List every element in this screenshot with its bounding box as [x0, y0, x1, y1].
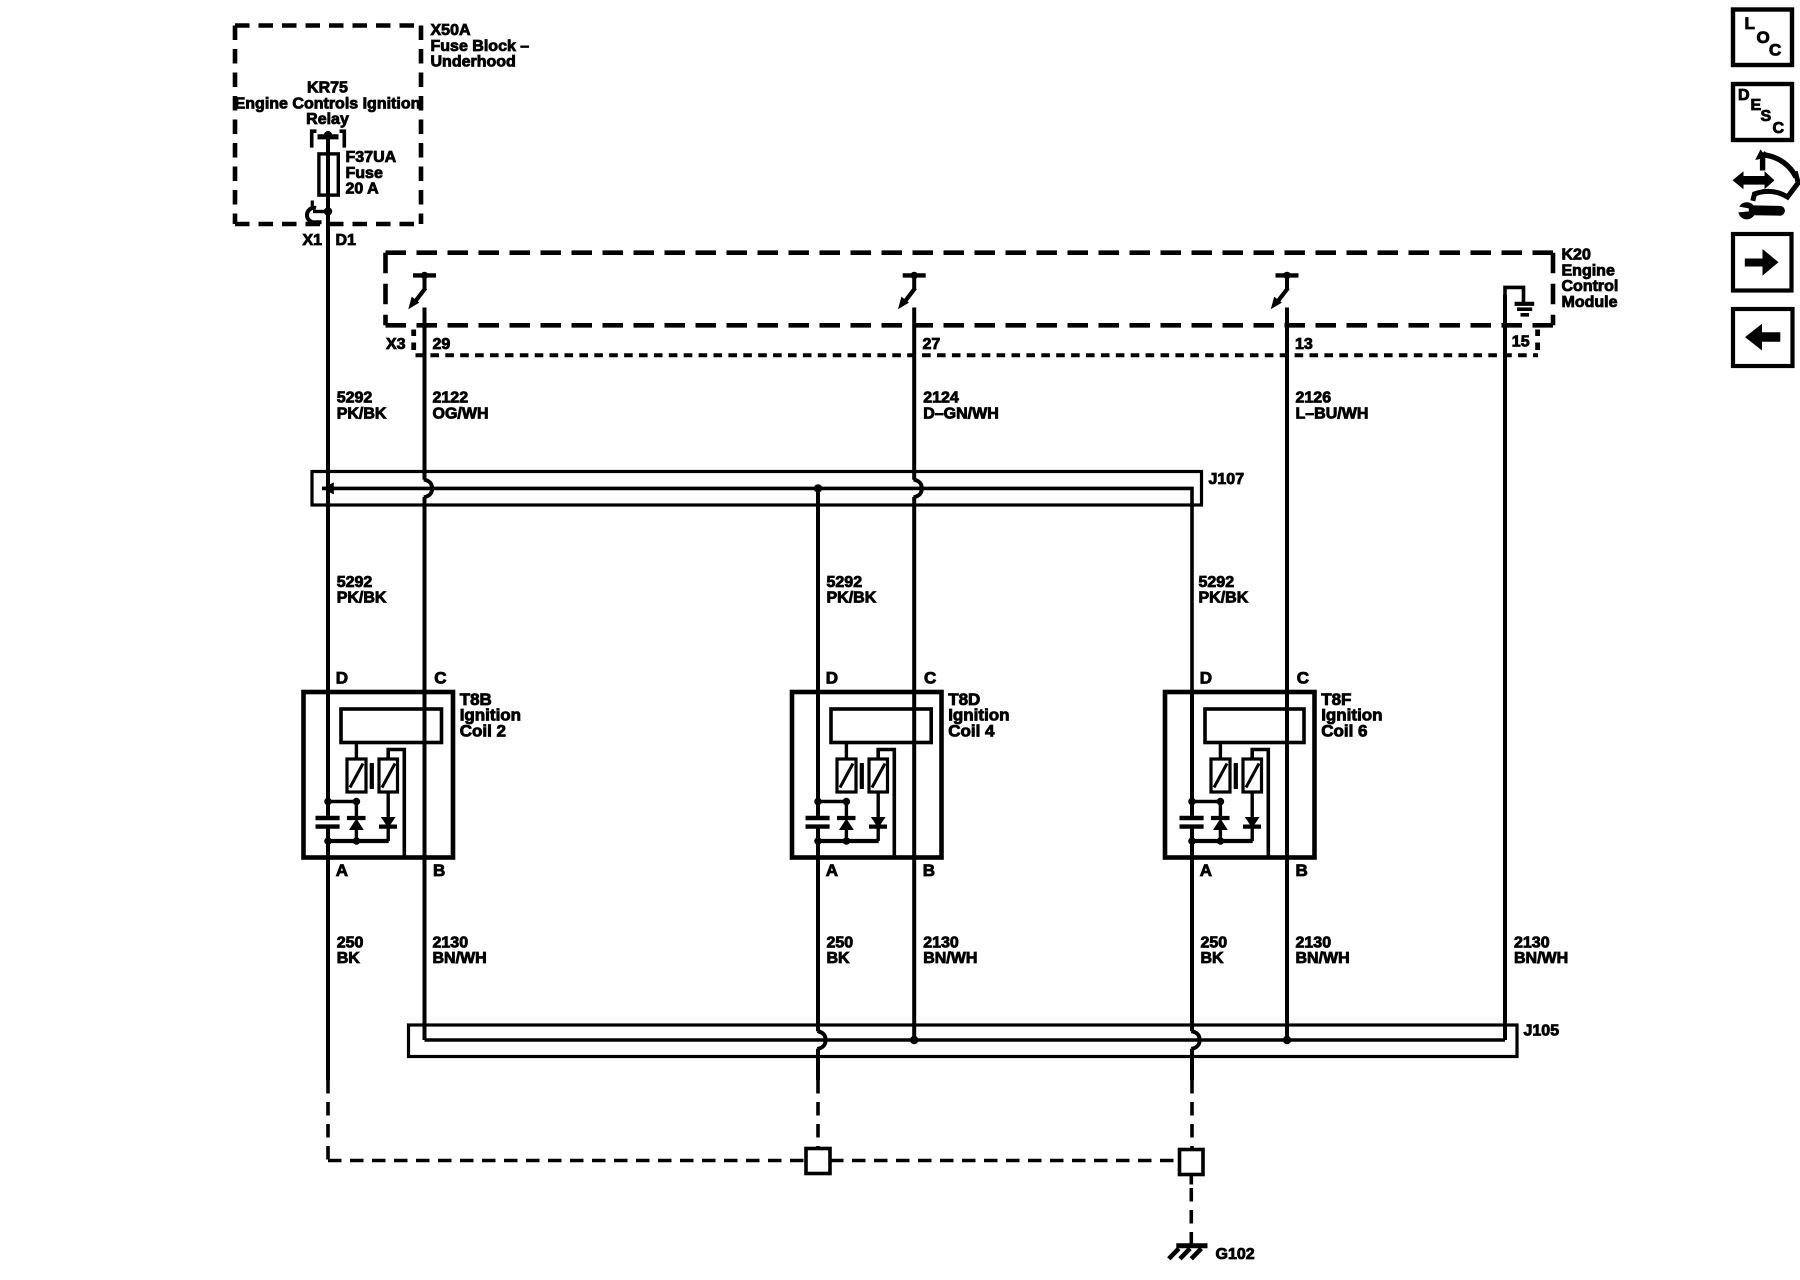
svg-text:D–GN/WH: D–GN/WH: [923, 405, 999, 422]
wire 250 BK from coil 6 pin A: [1190, 858, 1194, 1032]
connector X3 left tick: [411, 330, 416, 337]
wire 5292 PK/BK from J107 to coil 4 pin D: [816, 488, 820, 692]
zener diode (T8D): [877, 792, 880, 817]
svg-text:Engine Controls Ignition: Engine Controls Ignition: [235, 95, 421, 112]
internal wire to winding (T8B): [328, 800, 356, 803]
terminal hook at fuse block exit: [313, 210, 328, 213]
core (T8B): [370, 763, 374, 789]
svg-text:B: B: [1296, 861, 1308, 880]
svg-text:2130: 2130: [923, 934, 959, 951]
svg-text:F37UA: F37UA: [346, 149, 397, 166]
icon box forward arrow: [1733, 234, 1792, 291]
wire 2130 BN/WH from ECM pin 15 to splice J105: [1503, 295, 1507, 1040]
svg-text:X1: X1: [303, 232, 323, 249]
svg-text:Coil 2: Coil 2: [460, 721, 506, 740]
svg-text:B: B: [433, 861, 445, 880]
J107 branch junction to coil 4 pin D: [814, 484, 822, 492]
icon box LOC: [1733, 10, 1792, 66]
svg-text:Coil 4: Coil 4: [948, 721, 995, 740]
svg-text:20 A: 20 A: [346, 181, 380, 198]
svg-text:Relay: Relay: [306, 111, 349, 128]
wire pin B from primary block (T8D): [912, 709, 916, 743]
junction dot D branch (T8B): [324, 798, 332, 806]
wire 2130 BN/WH from coil 2 pin B to splice J105: [423, 743, 427, 1041]
svg-text:BK: BK: [1201, 950, 1225, 967]
relay KR75 contact terminals: [312, 131, 317, 147]
junction dot D branch (T8F): [1188, 798, 1196, 806]
internal ground bus (T8D): [818, 839, 879, 843]
diode (T8D): [845, 802, 848, 819]
svg-text:D: D: [1738, 87, 1750, 104]
junction dot below fuse: [324, 207, 332, 215]
ground dashed link to splice S1: [328, 1159, 806, 1163]
ground G102 symbol: [1176, 1243, 1207, 1248]
J107 pass-through chevron at wire 2124: [914, 479, 922, 497]
svg-text:2122: 2122: [433, 390, 469, 407]
svg-text:G102: G102: [1216, 1246, 1255, 1263]
primary winding (T8B): [355, 743, 358, 760]
secondary output wire (T8F): [1252, 750, 1268, 856]
svg-text:B: B: [923, 861, 935, 880]
wire 2130 BN/WH from coil 4 pin B to splice J105: [912, 743, 916, 1041]
svg-text:Engine: Engine: [1562, 262, 1615, 279]
svg-text:BK: BK: [337, 950, 361, 967]
wire 2130 BN/WH from coil 6 pin B to splice J105: [1285, 743, 1289, 1041]
fuse F37UA 20 A: [319, 154, 338, 195]
svg-text:D: D: [826, 668, 838, 687]
svg-text:PK/BK: PK/BK: [337, 405, 387, 422]
svg-text:BN/WH: BN/WH: [1514, 950, 1568, 967]
svg-text:5292: 5292: [827, 574, 863, 591]
ground wire (dashed) from coil 2 pin A: [326, 1080, 330, 1161]
secondary output wire (T8B): [388, 750, 404, 856]
internal wire to winding (T8F): [1192, 800, 1220, 803]
svg-text:27: 27: [923, 336, 941, 353]
svg-text:KR75: KR75: [307, 80, 348, 97]
svg-text:A: A: [336, 861, 348, 880]
svg-text:L: L: [1745, 14, 1755, 33]
svg-text:S: S: [1761, 108, 1772, 125]
svg-text:C: C: [434, 668, 446, 687]
capacitor (T8D): [806, 816, 830, 820]
svg-text:5292: 5292: [337, 574, 373, 591]
svg-text:C: C: [1769, 41, 1781, 60]
svg-text:2124: 2124: [923, 390, 959, 407]
svg-text:PK/BK: PK/BK: [1199, 590, 1249, 607]
wire pin A inside T8D: [816, 841, 820, 858]
ECM low-side driver, pin 27: [903, 273, 926, 277]
svg-text:C: C: [924, 668, 936, 687]
J105 pass-through chevron at coil 6 ground wire: [1191, 1031, 1199, 1049]
svg-text:13: 13: [1295, 336, 1313, 353]
svg-text:BN/WH: BN/WH: [923, 950, 977, 967]
svg-text:PK/BK: PK/BK: [337, 590, 387, 607]
svg-text:Fuse: Fuse: [346, 165, 383, 182]
J105 junction with coil 4 pin B wire: [910, 1036, 918, 1044]
svg-text:J105: J105: [1524, 1023, 1560, 1040]
capacitor (T8F): [1180, 816, 1204, 820]
wire 2124 D-GN/WH from ECM pin 27 to coil 4 pin C: [912, 308, 916, 480]
secondary winding (T8F): [1243, 759, 1262, 792]
wire pin D inside T8D: [816, 692, 820, 818]
svg-text:Module: Module: [1562, 294, 1618, 311]
J105 internal bus wire: [425, 1038, 1506, 1042]
svg-text:BN/WH: BN/WH: [1296, 950, 1350, 967]
ground dashed wire from S2 to G102: [1190, 1175, 1194, 1185]
svg-text:D: D: [1200, 668, 1212, 687]
icon swap/repair: double arrow: [1733, 171, 1775, 189]
svg-text:L–BU/WH: L–BU/WH: [1296, 405, 1369, 422]
ECM low-side driver, pin 13: [1276, 273, 1299, 277]
diode (T8B): [355, 802, 358, 819]
svg-text:250: 250: [1201, 934, 1228, 951]
internal ground bus (T8F): [1192, 839, 1253, 843]
svg-text:PK/BK: PK/BK: [827, 590, 877, 607]
svg-text:BK: BK: [827, 950, 851, 967]
secondary winding (T8B): [379, 759, 398, 792]
wire pin B from primary block (T8B): [423, 709, 427, 743]
svg-text:D1: D1: [336, 232, 357, 249]
wire 250 BK from coil 4 pin A: [816, 858, 820, 1032]
svg-text:Underhood: Underhood: [431, 54, 516, 71]
svg-text:J107: J107: [1209, 471, 1245, 488]
svg-text:BN/WH: BN/WH: [433, 950, 487, 967]
core (T8D): [860, 763, 864, 789]
primary winding (T8F): [1219, 743, 1222, 760]
svg-text:D: D: [336, 668, 348, 687]
ignition coil T8B box: [304, 692, 454, 858]
svg-text:15: 15: [1512, 334, 1530, 351]
ignition coil T8F box: [1165, 692, 1315, 858]
J105 junction with coil 6 pin B wire: [1283, 1036, 1291, 1044]
wire pin B from primary block (T8F): [1285, 709, 1289, 743]
J107 arrow toward fuse feed: [322, 482, 334, 494]
wire pin D inside T8B: [326, 692, 330, 818]
internal wire to winding (T8D): [818, 800, 846, 803]
svg-text:K20: K20: [1562, 247, 1591, 264]
svg-text:A: A: [826, 861, 838, 880]
ECM low-side driver, pin 29: [413, 273, 436, 277]
engine control module K20 dashed box: [386, 250, 1554, 255]
zener diode (T8F): [1250, 792, 1253, 817]
svg-text:X50A: X50A: [431, 22, 471, 39]
ground dashed link from S1 to S2: [830, 1159, 1180, 1163]
ECM internal ground at pin 15: [1505, 287, 1524, 302]
junction dot D branch (T8D): [814, 798, 822, 806]
wire 2122 OG/WH from ECM pin 29 to coil 2 pin C: [423, 308, 427, 480]
svg-text:A: A: [1200, 861, 1212, 880]
fuse block X50A dashed box: [235, 23, 421, 28]
icon box DESC: [1733, 84, 1792, 140]
zener diode (T8B): [387, 792, 390, 817]
svg-text:2126: 2126: [1296, 390, 1332, 407]
svg-text:C: C: [1297, 668, 1309, 687]
J107 pass-through chevron at wire 2122: [424, 479, 432, 497]
ground splice square S2: [1180, 1150, 1204, 1175]
svg-text:250: 250: [337, 934, 364, 951]
svg-text:Coil 6: Coil 6: [1321, 721, 1367, 740]
icon swap/repair: loop arrow: [1763, 153, 1767, 171]
svg-text:2130: 2130: [1296, 934, 1332, 951]
svg-text:Control: Control: [1562, 278, 1619, 295]
wire 2126 L-BU/WH from ECM pin 13 to coil 6 pin C: [1285, 308, 1289, 710]
svg-text:2130: 2130: [1514, 934, 1550, 951]
svg-text:29: 29: [433, 336, 451, 353]
primary connector block (T8D): [831, 709, 931, 743]
ground wire (dashed) from coil 6 pin A: [1190, 1080, 1194, 1149]
svg-text:X3: X3: [386, 336, 406, 353]
wire pin A inside T8B: [326, 841, 330, 858]
svg-text:C: C: [1773, 120, 1785, 137]
primary winding (T8D): [845, 743, 848, 760]
icon swap/repair: wrench: [1738, 202, 1755, 219]
J105 pass-through chevron at coil 4 ground wire: [817, 1031, 825, 1049]
primary connector block (T8B): [341, 709, 442, 743]
J107 internal bus wire: [322, 488, 1192, 692]
splice pack J107: [312, 472, 1202, 506]
capacitor (T8B): [316, 816, 340, 820]
svg-text:O: O: [1757, 28, 1770, 47]
ignition coil T8D box: [792, 692, 942, 858]
secondary output wire (T8D): [878, 750, 894, 856]
ground wire (dashed) from coil 4 pin A: [816, 1080, 820, 1148]
wire 5292 PK/BK from fuse block to coil 2 pin D: [326, 215, 330, 692]
wire pin D inside T8F: [1190, 692, 1194, 818]
wire 250 BK from coil 2 pin A: [326, 858, 330, 1081]
svg-text:5292: 5292: [337, 390, 373, 407]
core (T8F): [1234, 763, 1238, 789]
splice pack J105: [409, 1025, 1518, 1057]
icon box back arrow: [1733, 309, 1793, 366]
svg-text:Fuse Block –: Fuse Block –: [431, 38, 530, 55]
ground splice square S1: [806, 1149, 830, 1174]
wire from relay through fuse: [326, 137, 330, 212]
connector X3 right tick: [1535, 330, 1540, 337]
internal ground bus (T8B): [328, 839, 389, 843]
svg-text:2130: 2130: [433, 934, 469, 951]
wire pin A inside T8F: [1190, 841, 1194, 858]
primary connector block (T8F): [1205, 709, 1304, 743]
connector X3 boundary dashed line: [416, 353, 1539, 357]
diode (T8F): [1219, 802, 1222, 819]
svg-text:5292: 5292: [1199, 574, 1235, 591]
secondary winding (T8D): [869, 759, 888, 792]
svg-text:OG/WH: OG/WH: [433, 405, 489, 422]
svg-text:250: 250: [827, 934, 854, 951]
